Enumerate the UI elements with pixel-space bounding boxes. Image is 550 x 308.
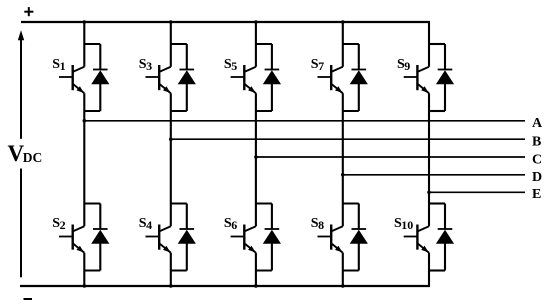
- diode D7 (antiparallel with S7): [350, 44, 368, 111]
- diode D9 (antiparallel with S9): [436, 44, 454, 111]
- svg-text:B: B: [532, 134, 541, 149]
- label S8: [311, 216, 324, 232]
- wire upper cell 4 top branch: [343, 43, 359, 45]
- wire lower cell 4 bottom branch: [343, 269, 359, 271]
- diode D2 (antiparallel with S2): [91, 204, 109, 271]
- transistor S9: [404, 65, 429, 93]
- node phase E tap: [427, 191, 431, 195]
- wire phase B output: [171, 138, 525, 140]
- label S10: [394, 216, 413, 232]
- wire phase E output: [429, 191, 525, 193]
- label - (negative terminal): [24, 298, 33, 300]
- svg-text:9: 9: [404, 59, 410, 73]
- diode D8 (antiparallel with S8): [350, 204, 368, 271]
- transistor S8: [318, 225, 343, 253]
- wire lower cell 3 bottom branch: [256, 269, 272, 271]
- diode D3 (antiparallel with S3): [178, 44, 196, 111]
- wire upper cell 3 bottom branch: [256, 110, 272, 112]
- wire leg 5 vertical: [428, 22, 430, 286]
- wire upper cell 2 top branch: [171, 43, 187, 45]
- label + (positive terminal): [24, 7, 33, 16]
- diode D10 (antiparallel with S10): [436, 204, 454, 271]
- wire upper cell 1 top branch: [84, 43, 100, 45]
- svg-text:6: 6: [231, 218, 237, 232]
- node phase D tap: [341, 173, 345, 177]
- wire phase A output: [84, 120, 525, 122]
- svg-text:2: 2: [60, 218, 66, 232]
- wire upper cell 5 top branch: [429, 43, 445, 45]
- wire leg 1 vertical: [83, 22, 85, 286]
- transistor S1: [59, 65, 84, 93]
- svg-text:3: 3: [146, 59, 152, 73]
- svg-text:DC: DC: [23, 150, 43, 165]
- node leg 1 on negative rail: [83, 284, 87, 288]
- wire lower cell 3 top branch: [256, 202, 272, 204]
- svg-text:10: 10: [401, 218, 413, 232]
- wire leg 2 vertical: [170, 22, 172, 286]
- wire phase D output: [343, 174, 525, 176]
- node leg 2 on negative rail: [169, 284, 173, 288]
- wire lower cell 4 top branch: [343, 202, 359, 204]
- label S2: [52, 216, 65, 232]
- label S7: [311, 57, 324, 73]
- node leg 4 on negative rail: [341, 284, 345, 288]
- wire lower cell 2 bottom branch: [171, 269, 187, 271]
- label S4: [139, 216, 152, 232]
- VDC voltage arrow: [18, 30, 24, 277]
- wire lower cell 1 bottom branch: [84, 269, 100, 271]
- svg-text:5: 5: [231, 59, 237, 73]
- wire lower cell 5 bottom branch: [429, 269, 445, 271]
- wire leg 4 vertical: [342, 22, 344, 286]
- wire lower cell 1 top branch: [84, 202, 100, 204]
- svg-text:D: D: [532, 170, 542, 185]
- transistor S10: [404, 225, 429, 253]
- node leg 3 on positive rail: [254, 20, 258, 24]
- wire positive DC rail (top bus): [21, 21, 430, 23]
- label S6: [224, 216, 237, 232]
- transistor S6: [231, 225, 256, 253]
- wire negative DC rail (bottom bus): [20, 285, 430, 287]
- node phase B tap: [169, 137, 173, 141]
- svg-text:A: A: [532, 116, 543, 131]
- node phase A tap: [83, 119, 87, 123]
- transistor S4: [146, 225, 171, 253]
- svg-text:8: 8: [318, 218, 324, 232]
- wire phase C output: [256, 156, 525, 158]
- node leg 4 on positive rail: [341, 20, 345, 24]
- diode D4 (antiparallel with S4): [178, 204, 196, 271]
- wire lower cell 5 top branch: [429, 202, 445, 204]
- wire upper cell 3 top branch: [256, 43, 272, 45]
- transistor S7: [318, 65, 343, 93]
- svg-text:1: 1: [60, 59, 66, 73]
- node leg 1 on positive rail: [83, 20, 87, 24]
- transistor S5: [231, 65, 256, 93]
- svg-text:4: 4: [146, 218, 152, 232]
- label S3: [139, 57, 152, 73]
- svg-text:7: 7: [318, 59, 324, 73]
- node leg 2 on positive rail: [169, 20, 173, 24]
- label VDC: [8, 141, 43, 166]
- label S9: [397, 57, 410, 73]
- svg-text:C: C: [532, 152, 542, 167]
- diode D5 (antiparallel with S5): [263, 44, 281, 111]
- node leg 3 on negative rail: [254, 284, 258, 288]
- svg-text:E: E: [532, 187, 541, 202]
- wire upper cell 2 bottom branch: [171, 110, 187, 112]
- wire leg 3 vertical: [255, 22, 257, 286]
- node phase C tap: [254, 155, 258, 159]
- diode D1 (antiparallel with S1): [91, 44, 109, 111]
- wire upper cell 1 bottom branch: [84, 110, 100, 112]
- wire upper cell 5 bottom branch: [429, 110, 445, 112]
- label S1: [52, 57, 65, 73]
- transistor S2: [59, 225, 84, 253]
- wire lower cell 2 top branch: [171, 202, 187, 204]
- transistor S3: [146, 65, 171, 93]
- diode D6 (antiparallel with S6): [263, 204, 281, 271]
- wire upper cell 4 bottom branch: [343, 110, 359, 112]
- label S5: [224, 57, 237, 73]
